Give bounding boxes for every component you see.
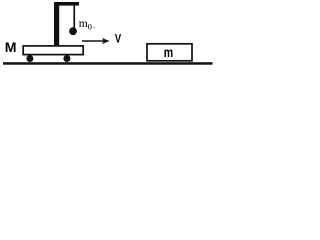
speck after m0 (93, 27, 96, 28)
post on cart (54, 2, 59, 45)
ground (3, 62, 213, 64)
top bar (54, 2, 79, 6)
svg-text:m0: m0 (79, 18, 92, 32)
velocity arrow (82, 40, 104, 42)
svg-text:m: m (164, 44, 173, 60)
svg-text:M: M (5, 39, 17, 55)
cart M body (23, 46, 83, 55)
svg-text:V: V (115, 32, 122, 46)
string (73, 5, 75, 28)
block m body (147, 44, 192, 61)
wheel right (63, 55, 70, 62)
wheel left (26, 55, 33, 62)
ball m0 (69, 27, 77, 35)
